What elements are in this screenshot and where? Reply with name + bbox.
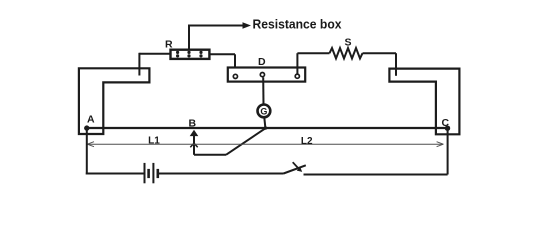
svg-text:D: D xyxy=(258,56,266,68)
svg-text:A: A xyxy=(87,113,95,125)
svg-text:B: B xyxy=(189,117,197,129)
svg-text:R: R xyxy=(165,39,173,51)
svg-text:S: S xyxy=(344,36,351,48)
svg-text:G: G xyxy=(260,106,267,116)
svg-text:L2: L2 xyxy=(301,136,313,147)
svg-text:C: C xyxy=(442,117,450,129)
svg-text:L1: L1 xyxy=(148,136,160,147)
svg-text:Resistance box: Resistance box xyxy=(253,17,342,31)
